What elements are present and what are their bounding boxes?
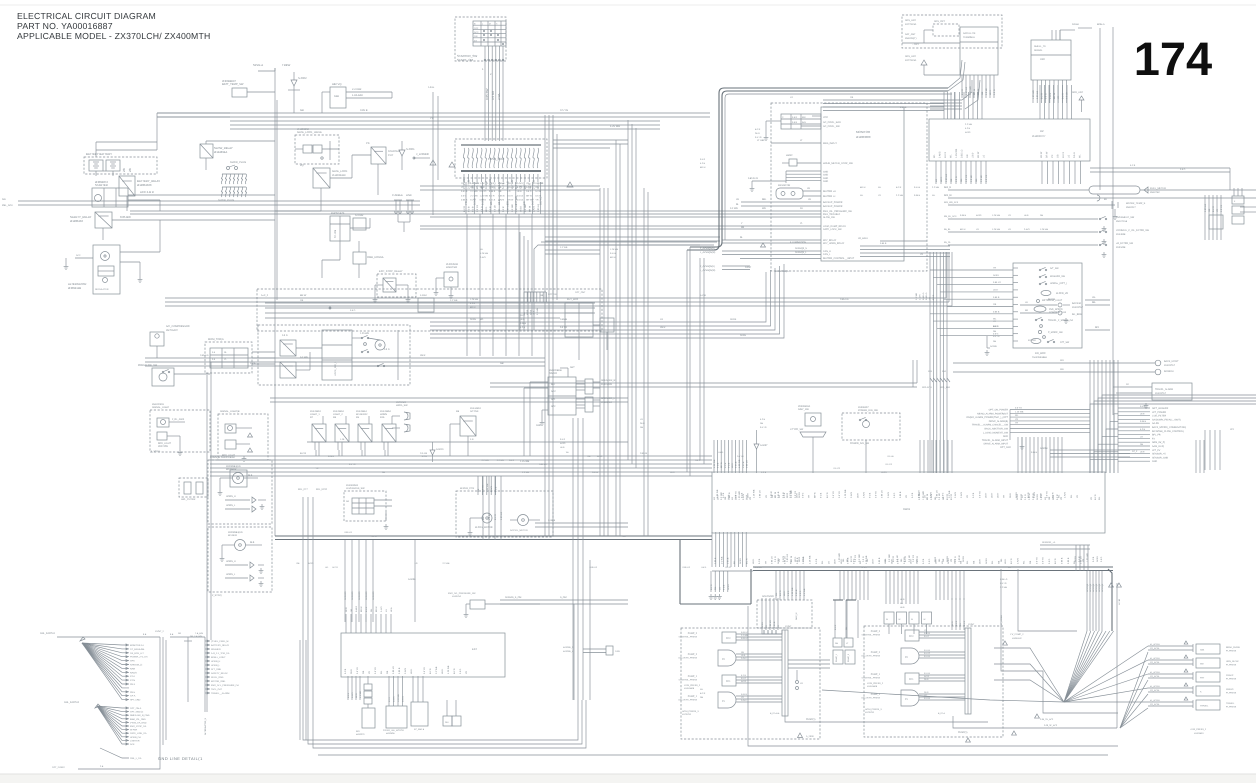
svg-text:#H4003000: #H4003000 — [856, 135, 871, 139]
monitor harness labels — [790, 96, 907, 109]
svg-text:0.85 LG: 0.85 LG — [683, 566, 691, 569]
svg-text:5-2 B: 5-2 B — [470, 302, 476, 305]
svg-text:B6_BL: B6_BL — [944, 228, 951, 231]
svg-text:YR: YR — [764, 561, 767, 564]
svg-text:1.25 WB: 1.25 WB — [844, 489, 847, 498]
cluster wires — [296, 330, 398, 380]
svg-text:GB: GB — [1208, 208, 1211, 212]
svg-text:0.5 YG: 0.5 YG — [760, 426, 767, 429]
svg-text:0.5 LB: 0.5 LB — [610, 252, 617, 255]
svg-text:GND: GND — [823, 174, 828, 177]
speaker L connector — [576, 397, 616, 412]
svg-text:CONTROL_PRESS: CONTROL_PRESS — [679, 679, 698, 682]
svg-text:0.85 B: 0.85 B — [1067, 557, 1070, 564]
svg-text:1.25 WB: 1.25 WB — [865, 555, 868, 564]
svg-text:YR: YR — [1090, 497, 1093, 500]
svg-text:AVSS05: AVSS05 — [344, 591, 347, 600]
svg-text:GND: GND — [1003, 435, 1008, 438]
gnd opt fuse wire — [52, 745, 160, 769]
svg-text:HORN_L: HORN_L — [226, 573, 236, 576]
svg-text:0.85 B: 0.85 B — [461, 198, 468, 201]
bus rows y298 — [165, 298, 952, 306]
svg-text:OPT_FUSE2: OPT_FUSE2 — [52, 766, 66, 769]
washer enclosure — [208, 456, 272, 524]
svg-text:1-B 8-: 1-B 8- — [428, 86, 434, 89]
resistor unit — [776, 184, 803, 199]
pump control pressure sensor PC2 PUMP1 group — [862, 630, 919, 641]
gnd right label column — [205, 637, 239, 712]
below-bus comb 1 — [775, 571, 806, 600]
svg-text:1.25 WB: 1.25 WB — [360, 332, 369, 335]
svg-text:PUMP_1: PUMP_1 — [688, 695, 698, 698]
svg-text:OPT_GN2: OPT_GN2 — [1000, 446, 1011, 449]
svg-text:0.5 YG: 0.5 YG — [832, 491, 835, 498]
solenoid connector enclosure — [757, 600, 812, 628]
svg-text:S-0057: S-0057 — [760, 444, 768, 447]
svg-text:B-2 R: B-2 R — [850, 556, 853, 562]
svg-text:WASHER: WASHER — [211, 648, 221, 651]
svg-text:LIGHT_1: LIGHT_1 — [310, 413, 320, 416]
AC compressor — [150, 325, 190, 358]
OPT rows — [966, 409, 1009, 446]
EXC stop relay R6 — [383, 278, 396, 292]
shell serial pins — [1032, 80, 1069, 103]
svg-text:#H4037A7: #H4037A7 — [1155, 392, 1167, 395]
svg-text:5-2 B: 5-2 B — [723, 584, 726, 590]
svg-text:BACK/M: BACK/M — [1072, 302, 1081, 305]
svg-text:PART NO. YA00016887: PART NO. YA00016887 — [17, 21, 113, 31]
OPT rows wires — [1010, 407, 1090, 441]
svg-text:WPL_B04: WPL_B04 — [940, 386, 951, 389]
svg-text:BR W: BR W — [526, 194, 533, 197]
svg-text:B-2 R: B-2 R — [1061, 93, 1064, 99]
svg-text:2-2 KB2: 2-2 KB2 — [352, 88, 362, 91]
svg-text:0.85 B: 0.85 B — [1031, 451, 1038, 454]
monitor bus inner — [690, 91, 948, 247]
svg-text:PC2: PC2 — [909, 635, 914, 638]
cluster labels — [282, 332, 390, 359]
gate lock valve V2 — [313, 145, 322, 153]
svg-text:W/-RL_GND: W/-RL_GND — [211, 676, 224, 679]
svg-text:5-2 B: 5-2 B — [783, 492, 786, 498]
svg-text:PC2: PC2 — [726, 637, 731, 640]
fuse box lower wires — [467, 214, 532, 356]
MC drop bundle right — [1087, 571, 1102, 631]
MC bottom pin labels — [774, 553, 1089, 562]
pump delivery sensor P2 PUMP2 group — [679, 650, 736, 666]
svg-text:DR: DR — [178, 632, 182, 635]
svg-text:#H70A29: #H70A29 — [396, 401, 407, 404]
overheat switch row — [944, 215, 1135, 231]
svg-text:2B R: 2B R — [1039, 493, 1042, 498]
step path x1018 — [1018, 569, 1077, 631]
svg-text:#H4003(T): #H4003(T) — [905, 37, 917, 40]
svg-text:#H70704: #H70704 — [682, 713, 692, 716]
svg-text:GB: GB — [981, 91, 984, 95]
svg-text:B-2 R: B-2 R — [1212, 206, 1215, 212]
svg-text:0.5 LB: 0.5 LB — [914, 186, 921, 189]
component A82 VQ — [330, 83, 346, 108]
svg-text:B-2 R: B-2 R — [1062, 152, 1065, 158]
svg-text:YR: YR — [1015, 418, 1018, 421]
svg-text:0.85 B: 0.85 B — [1061, 557, 1064, 564]
svg-text:A_2000: A_2000 — [806, 735, 814, 738]
svg-text:2B R: 2B R — [795, 493, 798, 498]
svg-text:PUMP_2: PUMP_2 — [688, 653, 698, 656]
x483 labels — [482, 512, 503, 520]
svg-text:BR W: BR W — [300, 294, 307, 297]
svg-text:1-RL: 1-RL — [340, 438, 346, 441]
svg-text:0.5 G: 0.5 G — [508, 194, 514, 197]
svg-text:W-PER_CTR: W-PER_CTR — [460, 487, 474, 490]
svg-text:BATTERY BATTERY: BATTERY BATTERY — [86, 152, 112, 156]
svg-text:2B R: 2B R — [890, 559, 893, 564]
svg-text:3-B: 3-B — [470, 438, 474, 441]
fuel sender row — [944, 194, 1256, 201]
svg-text:GB: GB — [470, 186, 474, 189]
radio gnd — [536, 410, 548, 427]
svg-text:DEL/VERY_PRESS: DEL/VERY_PRESS — [679, 699, 698, 702]
svg-text:3.85_SV_AC3: 3.85_SV_AC3 — [1040, 718, 1054, 721]
svg-text:#H44462A: #H44462A — [470, 407, 481, 410]
backup lamp rows — [953, 359, 1179, 375]
svg-text:SPS_ANT: SPS_ANT — [905, 19, 916, 22]
svg-text:ST-A: ST-A — [130, 675, 135, 678]
svg-text:0.85 LG: 0.85 LG — [539, 463, 547, 466]
oil pressure switch — [448, 592, 540, 617]
svg-text:PAL_ECO: PAL_ECO — [316, 488, 327, 491]
svg-text:ENG_STOP_OA: ENG_STOP_OA — [130, 725, 147, 728]
svg-text:TRAVEL__ALARM: TRAVEL__ALARM — [211, 692, 229, 695]
svg-text:0.85 LG: 0.85 LG — [344, 531, 352, 534]
svg-text:EST: EST — [472, 648, 477, 651]
node J LOWER — [413, 153, 430, 159]
svg-text:5-2 B: 5-2 B — [1092, 556, 1095, 562]
pump control sensor PC1 PUMP2 group — [679, 675, 736, 690]
svg-text:SAT_ANT: SAT_ANT — [905, 33, 916, 36]
svg-text:CR_AC3A: CR_AC3A — [1150, 675, 1160, 678]
svg-text:BR W: BR W — [508, 198, 515, 201]
MC label — [903, 508, 911, 511]
svg-text:ISFT_WASHER: ISFT_WASHER — [1152, 407, 1169, 410]
svg-text:1.25 WB: 1.25 WB — [470, 182, 479, 185]
svg-text:TRAVEL_ALARM: TRAVEL_ALARM — [1155, 388, 1173, 391]
svg-text:#H400/903: #H400/903 — [152, 403, 164, 406]
svg-text:PAL_077: PAL_077 — [298, 488, 308, 491]
svg-text:OT_BA/HL/M6: OT_BA/HL/M6 — [130, 648, 145, 651]
pump sensor enclosure PUMP1 group — [864, 626, 1003, 737]
svg-text:2B R: 2B R — [640, 422, 645, 425]
fuse box circuit labels — [463, 178, 540, 189]
solenoid comb — [762, 595, 778, 630]
svg-text:5-2 B: 5-2 B — [520, 326, 526, 329]
right comb small — [1204, 195, 1223, 240]
glow relay R3 — [200, 144, 233, 158]
svg-text:LT A83: LT A83 — [757, 139, 765, 142]
svg-text:1.25 WB: 1.25 WB — [397, 694, 400, 702]
svg-text:OPT-ON: OPT-ON — [548, 293, 557, 296]
svg-text:B/O/BOH: B/O/BOH — [1164, 370, 1174, 373]
svg-text:2-2 WB: 2-2 WB — [359, 690, 362, 698]
svg-text:GND: GND — [536, 424, 541, 427]
svg-text:DR: DR — [346, 500, 350, 503]
travel alarm bends — [1113, 387, 1120, 393]
battery B2 — [106, 160, 120, 171]
svg-text:2B R: 2B R — [660, 326, 666, 329]
svg-text:1.25 WB: 1.25 WB — [955, 148, 958, 158]
svg-text:AVSS26_S_OM: AVSS26_S_OM — [505, 596, 521, 599]
svg-text:#1_AC02A: #1_AC02A — [1150, 699, 1160, 702]
svg-text:1.25 WB: 1.25 WB — [809, 555, 812, 564]
PS starter cut relay R5 — [366, 142, 400, 164]
svg-text:KEY_RELAY: KEY_RELAY — [823, 239, 837, 242]
svg-text:0.5 G: 0.5 G — [480, 206, 483, 212]
svg-text:P/_PRESS: P/_PRESS — [1226, 664, 1237, 667]
svg-text:0.5 YG: 0.5 YG — [374, 667, 377, 674]
svg-text:SENSOR_+A: SENSOR_+A — [1042, 541, 1056, 544]
svg-text:0.5 G: 0.5 G — [350, 309, 356, 312]
svg-text:HORN_L: HORN_L — [226, 504, 236, 507]
svg-text:MONI_TOR(A: MONI_TOR(A — [208, 338, 224, 341]
svg-text:LFT_FV: LFT_FV — [1152, 449, 1161, 452]
svg-text:#H40782: #H40782 — [1150, 191, 1160, 194]
svg-text:B/U: B/U — [551, 383, 555, 386]
page bottom margin strip — [0, 774, 1256, 783]
A82 wires — [294, 88, 392, 113]
dash wires top right — [1072, 23, 1113, 415]
svg-text:5-2 B: 5-2 B — [531, 198, 534, 205]
svg-text:SPLN-A: SPLN-A — [253, 63, 263, 67]
svg-text:#K0037S: #K0037S — [356, 733, 365, 736]
svg-text:2 AVS: 2 AVS — [887, 492, 890, 498]
svg-text:#H44365A: #H44365A — [380, 410, 391, 413]
svg-text:LEVER/ASS_SW: LEVER/ASS_SW — [346, 487, 365, 490]
web rows y140 — [553, 140, 628, 148]
svg-text:MONITOR(A: MONITOR(A — [775, 270, 789, 273]
svg-text:GB: GB — [535, 186, 539, 189]
satellite terminal box — [960, 27, 998, 75]
svg-text:TRAVEL_ALARM_INPUT: TRAVEL_ALARM_INPUT — [982, 439, 1009, 442]
svg-text:YR: YR — [1051, 154, 1054, 158]
svg-text:0.85 BW: 0.85 BW — [120, 215, 131, 219]
svg-text:LG: LG — [713, 497, 716, 500]
monitor bus thin continuation — [687, 247, 690, 330]
svg-text:AVSS: AVSS — [881, 471, 887, 474]
svg-text:S-0058: S-0058 — [1040, 447, 1048, 450]
vertical bus x683 — [687, 330, 690, 476]
svg-text:0.5 YG: 0.5 YG — [349, 463, 356, 466]
svg-text:0.5 YG: 0.5 YG — [912, 555, 915, 562]
fusible link FL1 — [392, 194, 403, 213]
svg-text:GB: GB — [540, 182, 544, 185]
svg-text:2 AVS: 2 AVS — [480, 256, 486, 259]
monitor pin VCC — [812, 116, 828, 119]
svg-text:0.85 LG: 0.85 LG — [917, 490, 920, 498]
gnd alternator vertical — [204, 717, 207, 735]
svg-text:0.5 G: 0.5 G — [942, 492, 945, 498]
svg-text:0.85 B: 0.85 B — [878, 557, 881, 564]
svg-text:GATE_LIGH_OA: GATE_LIGH_OA — [130, 732, 147, 735]
svg-text:AVSS: AVSS — [739, 558, 742, 564]
svg-text:LG: LG — [959, 623, 962, 626]
svg-text:1.25 WB: 1.25 WB — [520, 460, 530, 463]
svg-text:2B R: 2B R — [747, 493, 750, 498]
svg-text:YR: YR — [465, 671, 468, 674]
svg-text:BF1: BF1 — [1095, 326, 1100, 329]
svg-text:B-2 R: B-2 R — [862, 566, 868, 569]
svg-text:YR: YR — [1015, 422, 1018, 425]
fuse box FB1 enclosure — [455, 139, 547, 178]
gnd detail header wire — [40, 632, 160, 641]
svg-text:GATE_LOCK: GATE_LOCK — [332, 170, 348, 173]
svg-text:GPS: GPS — [130, 660, 135, 663]
svg-text:LB 8-: LB 8- — [884, 559, 887, 565]
svg-text:SIGNAL_LIGHT(B: SIGNAL_LIGHT(B — [220, 410, 240, 413]
svg-text:#H4037A7: #H4037A7 — [1072, 306, 1084, 309]
svg-text:DR_BOX: DR_BOX — [1035, 352, 1046, 355]
svg-text:1.25 WB: 1.25 WB — [610, 248, 619, 251]
svg-text:0.5 G: 0.5 G — [1073, 152, 1076, 158]
svg-text:0.5 LB: 0.5 LB — [517, 194, 524, 197]
svg-text:1.25 WB: 1.25 WB — [480, 182, 489, 185]
MC drop bundle labels — [1086, 583, 1104, 592]
vertical bus x700 — [700, 258, 704, 464]
svg-text:YR: YR — [808, 495, 811, 498]
left vertical x207 — [207, 362, 211, 712]
svg-text:LG: LG — [777, 625, 780, 628]
svg-text:AVSS: AVSS — [520, 206, 523, 212]
svg-text:CAN_H: CAN_H — [823, 250, 831, 253]
svg-text:5-2 B: 5-2 B — [869, 492, 872, 498]
svg-text:LB 8-: LB 8- — [940, 176, 943, 182]
svg-text:PUMP_2: PUMP_2 — [871, 651, 881, 654]
center verticals x520 — [520, 232, 528, 330]
svg-text:RADIO: RADIO — [549, 372, 557, 375]
MC extra bottom labels — [714, 555, 1082, 564]
svg-text:2B R: 2B R — [924, 678, 929, 681]
svg-text:0.85 LG: 0.85 LG — [783, 556, 786, 564]
svg-text:2-2 WB: 2-2 WB — [300, 356, 308, 359]
svg-text:LG: LG — [660, 318, 663, 321]
svg-text:5-2 B: 5-2 B — [495, 486, 498, 492]
svg-text:RAD/O: RAD/O — [130, 671, 137, 674]
svg-text:1.25 WB: 1.25 WB — [713, 459, 716, 468]
svg-text:RESISTOR: RESISTOR — [778, 184, 790, 187]
svg-text:CONTROL_PRESS: CONTROL_PRESS — [679, 636, 698, 639]
svg-text:LB 8-: LB 8- — [1024, 214, 1029, 217]
gnd tail row — [100, 748, 142, 760]
svg-text:2-2 WB: 2-2 WB — [450, 299, 458, 302]
MC bundle to OPT rows — [1090, 414, 1118, 473]
AC pressure switch — [138, 364, 210, 386]
svg-text:2 AVS: 2 AVS — [517, 182, 523, 185]
S-0010 diode — [430, 442, 444, 462]
svg-text:0.5 G: 0.5 G — [897, 558, 900, 564]
svg-text:LB 8-: LB 8- — [997, 493, 1000, 498]
svg-text:LB 8-: LB 8- — [935, 559, 938, 565]
svg-text:GND: GND — [823, 171, 828, 174]
relay box K2 wires — [322, 218, 370, 278]
svg-text:B/S: B/S — [356, 730, 360, 733]
rows y218 labels — [960, 214, 1049, 231]
svg-text:0.5 G: 0.5 G — [461, 194, 467, 197]
svg-text:5-2 B: 5-2 B — [535, 190, 541, 193]
svg-text:HORN: HORN — [380, 413, 387, 416]
monitor enclosure — [771, 103, 927, 271]
svg-text:B-2 R: B-2 R — [755, 128, 761, 131]
low press label — [1190, 728, 1207, 735]
svg-text:SA-FB: SA-FB — [1152, 422, 1159, 425]
svg-text:GATE_LOCK_SW: GATE_LOCK_SW — [823, 228, 842, 231]
svg-text:0.5 R: 0.5 R — [792, 116, 798, 119]
glow plugs row 2 — [221, 187, 246, 197]
svg-text:0.85 LG: 0.85 LG — [590, 566, 598, 569]
svg-text:CONTROL_PRESS: CONTROL_PRESS — [862, 634, 881, 637]
svg-text:174: 174 — [1134, 32, 1212, 85]
svg-text:HYDRAUL_C_O/L_F/LTER_SW: HYDRAUL_C_O/L_F/LTER_SW — [1116, 229, 1150, 232]
svg-text:B05_BI: B05_BI — [944, 194, 952, 197]
svg-text:1.25 WB: 1.25 WB — [480, 252, 489, 255]
svg-text:ILLUMINATION: ILLUMINATION — [790, 241, 806, 244]
monitor bottom labels — [700, 265, 789, 273]
svg-text:KEY_HORN_RELAY: KEY_HORN_RELAY — [823, 242, 845, 245]
pump conn feeds — [834, 600, 858, 638]
svg-text:B-2 R: B-2 R — [365, 606, 368, 612]
glow plugs row 1 — [221, 174, 246, 184]
svg-text:B-2 R: B-2 R — [826, 492, 829, 498]
fan1 to rows — [1064, 646, 1148, 702]
relay row wires — [315, 416, 392, 456]
fuse box bus bar top — [461, 144, 541, 146]
solenoid labels — [761, 620, 780, 628]
bus wire tag labels — [296, 451, 1037, 569]
svg-text:ARM_IN(_P): ARM_IN(_P) — [1152, 441, 1165, 444]
svg-text:0.5 LB: 0.5 LB — [888, 455, 895, 458]
radio unit — [548, 369, 576, 415]
svg-text:0.85 LG: 0.85 LG — [771, 556, 774, 564]
svg-text:AVSS: AVSS — [727, 584, 730, 590]
bus rows y456 — [210, 456, 712, 476]
svg-text:AVSS: AVSS — [761, 622, 764, 628]
pump delivery sensor P1 PUMP1 group — [862, 690, 919, 714]
svg-text:B-2 R: B-2 R — [963, 620, 966, 626]
svg-text:BLB: BLB — [250, 541, 255, 544]
svg-text:2-2 WB: 2-2 WB — [482, 459, 490, 462]
svg-text:BFL_FR: BFL_FR — [1152, 434, 1161, 437]
svg-text:9650_IGL_OND: 9650_IGL_OND — [130, 718, 146, 721]
svg-text:S2B: S2B — [334, 95, 339, 98]
cluster relay K5 — [280, 340, 296, 356]
svg-text:S-0049: S-0049 — [548, 519, 556, 522]
warning triangle B — [567, 182, 573, 187]
svg-text:0.85 LG: 0.85 LG — [507, 204, 510, 212]
svg-text:HORN_H: HORN_H — [226, 560, 236, 563]
main bus step — [680, 540, 751, 604]
pump sensor wires PUMP1 group — [919, 629, 965, 700]
svg-text:SLOW_PLUG: SLOW_PLUG — [218, 199, 234, 202]
vertical bus x600 — [600, 188, 608, 536]
nested verticals right — [574, 560, 590, 700]
fuse box label patch left — [461, 182, 542, 201]
svg-text:LB 8-: LB 8- — [989, 89, 992, 95]
gate lock valve wires — [295, 141, 339, 160]
svg-text:GB: GB — [498, 186, 502, 189]
svg-text:2 AVS: 2 AVS — [741, 699, 747, 702]
sat ant right — [905, 55, 960, 75]
AC rows — [145, 354, 545, 366]
svg-text:0.5 LB: 0.5 LB — [924, 697, 930, 700]
washer rows — [225, 495, 266, 512]
